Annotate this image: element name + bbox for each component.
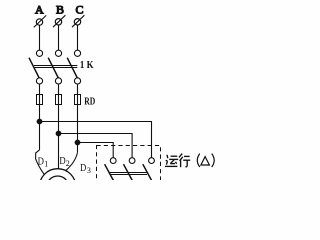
knife switch 1K blade 3 — [67, 58, 77, 78]
wire node1 right and down to delta-switch right pole — [40, 122, 152, 158]
wire B terminal to switch — [58, 25, 60, 50]
delta switch right contact — [149, 158, 155, 164]
svg-text:RD: RD — [84, 96, 95, 107]
junction node 1 (phase A) — [37, 119, 43, 125]
label 行 (hand-drawn glyph) — [179, 154, 190, 168]
wire switch to fuse 2 and on down to motor D2 — [58, 84, 60, 169]
knife switch 1K pole 1 bottom contact — [36, 78, 42, 84]
motor rotor (inner circle) — [47, 176, 69, 198]
wire motor lead D3 (curved) — [66, 152, 78, 170]
wire node3 right and down to delta-switch left pole — [78, 143, 114, 158]
svg-text:1 K: 1 K — [80, 60, 94, 71]
label D3 — [80, 163, 91, 175]
knife switch 1K pole 1 top contact — [36, 50, 42, 56]
terminal A (circle with slash) — [34, 15, 46, 27]
wire A terminal to switch — [39, 25, 41, 50]
terminal C (circle with slash) — [72, 15, 84, 27]
knife switch 1K pole 3 bottom contact — [74, 78, 80, 84]
label D1 — [38, 156, 49, 168]
delta switch linkage bar (double line) — [109, 173, 147, 175]
fuse RD phase C — [75, 95, 81, 105]
wire motor lead D1 (curved) — [36, 150, 44, 174]
svg-text:2: 2 — [66, 159, 70, 168]
delta switch blade 3 — [143, 164, 152, 181]
delta switch middle contact — [129, 158, 135, 164]
label delta triangle — [201, 157, 210, 165]
knife switch 1K blade 2 — [48, 58, 58, 78]
svg-text:C: C — [76, 2, 84, 16]
label ) fullwidth paren — [212, 154, 215, 167]
svg-text:B: B — [56, 2, 64, 16]
wire switch to fuse 1 and on down to node 1 — [39, 84, 41, 150]
label D2 — [59, 156, 69, 168]
fuse RD phase A — [37, 95, 43, 105]
delta switch blade 2 — [124, 164, 133, 181]
knife switch 1K pole 2 bottom contact — [55, 78, 61, 84]
label 运 (hand-drawn glyph) — [165, 155, 178, 167]
wire node2 right and down to delta-switch middle pole — [59, 134, 133, 158]
svg-text:D: D — [80, 163, 87, 174]
junction node 3 (phase C) — [75, 140, 81, 146]
knife switch 1K blade 1 — [29, 58, 39, 78]
svg-text:A: A — [35, 3, 44, 17]
label ( fullwidth paren — [197, 154, 200, 167]
terminal B (circle with slash) — [53, 15, 65, 27]
delta switch left contact — [110, 158, 116, 164]
knife switch 1K pole 3 top contact — [74, 50, 80, 56]
dashed enclosure of run (delta) switch — [97, 146, 161, 186]
svg-text:3: 3 — [87, 166, 91, 175]
svg-text:1: 1 — [44, 159, 48, 168]
wire C terminal to switch — [77, 25, 79, 50]
delta switch blade 1 — [105, 164, 114, 181]
motor stator (outer circle) — [39, 169, 76, 206]
knife switch 1K pole 2 top contact — [55, 50, 61, 56]
wire switch to fuse 3 and on down to node 3 — [77, 84, 79, 152]
switch 1K linkage bar (double line) — [34, 66, 77, 68]
junction node 2 (phase B) — [56, 131, 62, 137]
fuse RD phase B — [56, 95, 62, 105]
